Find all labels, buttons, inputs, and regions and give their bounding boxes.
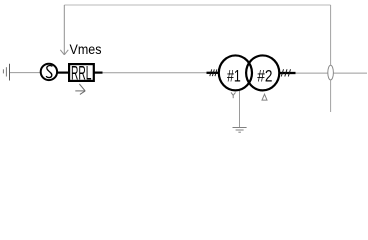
transformer T1 winding 2 circle	[246, 55, 279, 90]
pin transformer primary (bold stub)	[207, 72, 220, 74]
ground (source, rotated left)	[3, 64, 9, 81]
winding 2 delta symbol	[262, 94, 267, 100]
pin transformer secondary (bold stub)	[280, 72, 296, 74]
RRL block R1	[69, 64, 94, 81]
current flow arrow under RRL	[75, 84, 85, 94]
AC source sine S glyph	[46, 66, 52, 78]
neutral wire from transformer to ground	[239, 91, 241, 128]
svg-text:RRL: RRL	[71, 63, 92, 84]
wire transformer to right	[296, 72, 368, 74]
transformer T1 winding 1 circle	[219, 55, 252, 90]
wire top measurement loop	[64, 4, 330, 6]
3-phase slashes secondary	[281, 69, 290, 76]
svg-text:Vmes: Vmes	[70, 41, 102, 57]
meter ellipse on right vertical	[328, 65, 334, 80]
wire right vertical lower	[330, 80, 332, 112]
svg-text:#1: #1	[227, 66, 241, 85]
probe Vmes arrow	[60, 5, 68, 55]
wire right vertical upper	[330, 5, 332, 65]
pin source to RRL (bold stub)	[57, 71, 68, 73]
wire RRL to transformer	[103, 72, 207, 74]
ground (transformer neutral)	[233, 128, 247, 133]
pin RRL right (bold stub)	[95, 71, 103, 73]
wire ground to source	[10, 72, 41, 74]
svg-text:#2: #2	[257, 66, 272, 85]
3-phase slashes primary	[210, 69, 217, 76]
AC source U1 circle	[41, 64, 57, 80]
winding 1 wye symbol	[231, 92, 236, 98]
